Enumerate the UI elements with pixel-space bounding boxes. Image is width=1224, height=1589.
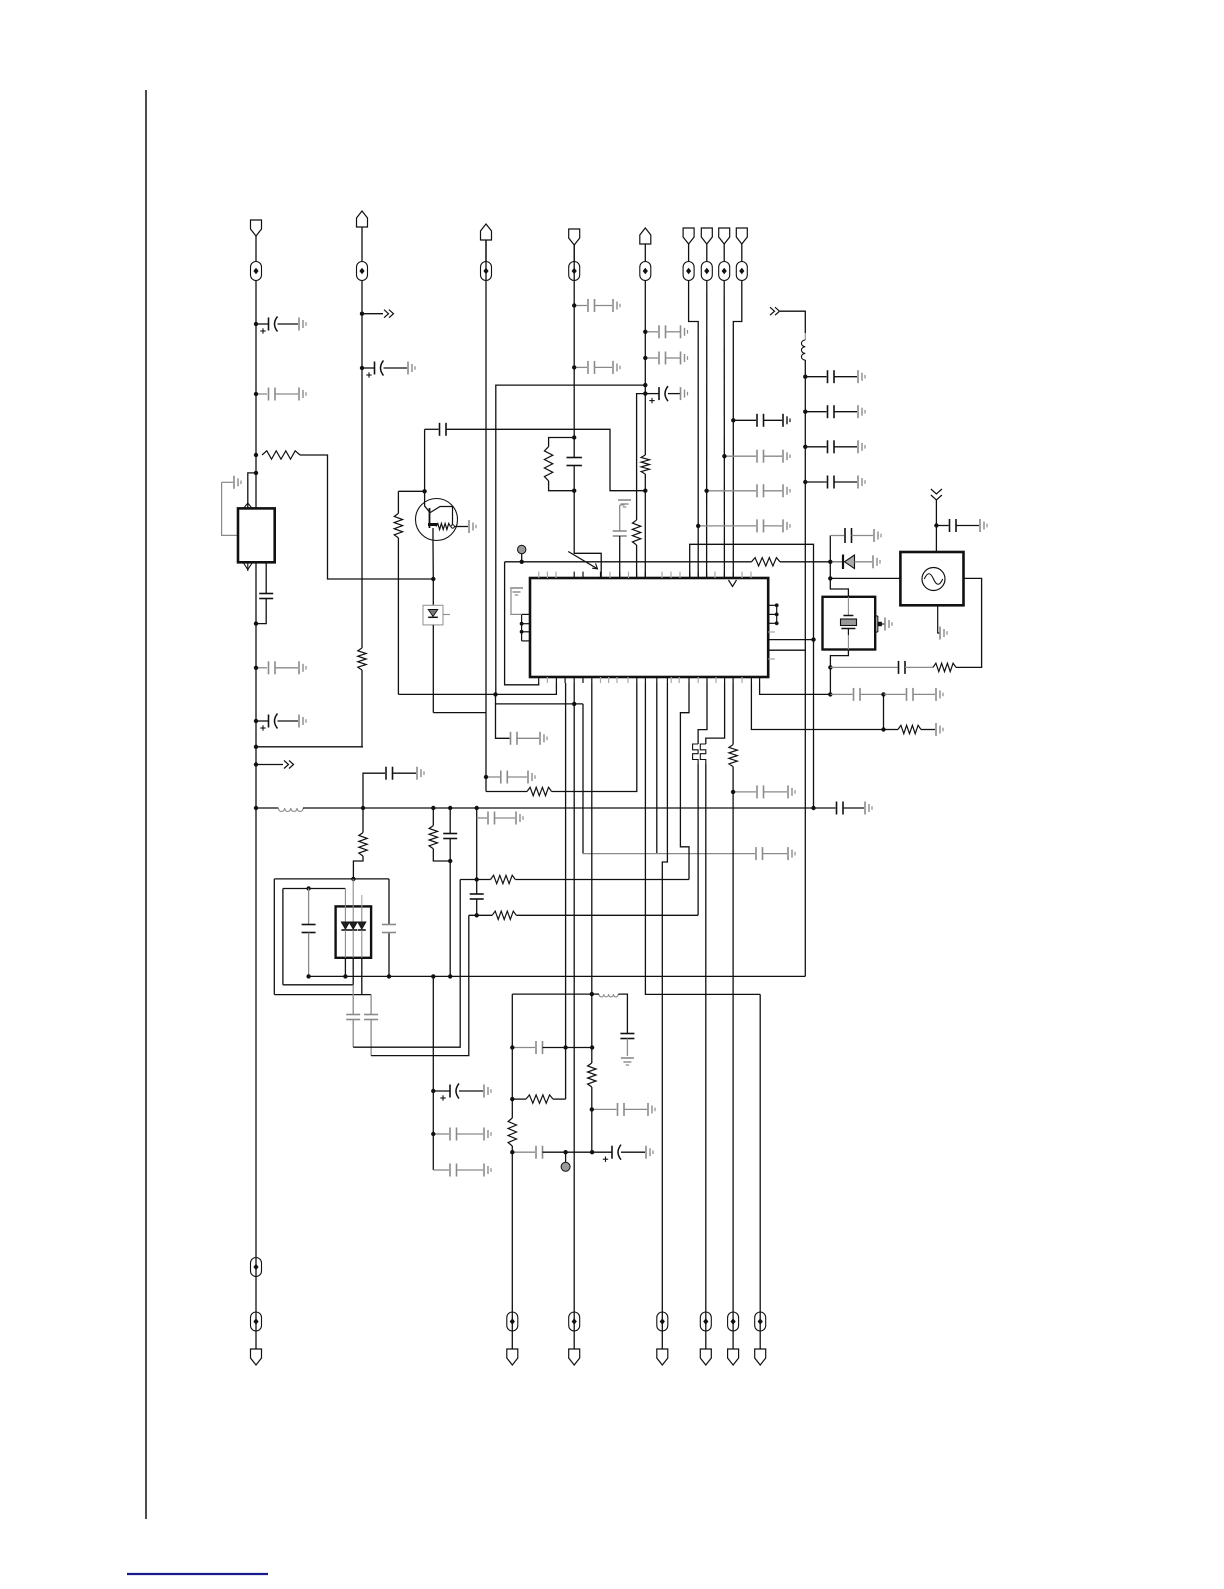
row y=1099.1 with R13 <box>512 1095 565 1103</box>
capacitor C23 (to ground) <box>511 732 548 745</box>
capacitor C37 (series) <box>620 1034 634 1039</box>
wire R4 to IC pin riser <box>552 683 637 792</box>
wire C27 to bus2 <box>449 839 451 977</box>
node dot <box>803 480 807 484</box>
arrow out (net continuation) <box>256 761 294 769</box>
antenna arrow input <box>931 489 942 552</box>
capacitor C4 (to ground) <box>256 661 306 674</box>
test point TP9 <box>736 262 747 281</box>
wire column x=760.2 <box>759 994 761 1349</box>
wire R9 bottom to nest <box>397 538 399 695</box>
oscillator X1 (boxed) <box>900 552 963 605</box>
node dot <box>696 524 700 528</box>
connector P4 (top, pointing down) <box>569 229 580 245</box>
connector P16 (bottom, pointing down) <box>755 1349 766 1365</box>
wire lead x=353.2 <box>352 879 354 985</box>
U2 pin arrow top <box>244 503 252 508</box>
node dot <box>934 523 938 527</box>
node dot <box>828 560 832 564</box>
node dot <box>803 375 807 379</box>
resistor R6 (vertical on column) <box>641 455 649 474</box>
capacitor C35 (to ground) <box>433 1128 491 1141</box>
node dot <box>254 806 258 810</box>
U1 top pin stubs <box>539 572 751 578</box>
capacitor C6 (polarized, to ground) <box>362 361 415 378</box>
inductor FL2 (horizontal) <box>278 808 303 811</box>
crystal case ground <box>875 616 892 632</box>
node dot <box>828 692 832 696</box>
node dot <box>493 692 497 696</box>
wire column x=591.8 <box>591 683 593 1152</box>
wire R9 top <box>397 491 399 513</box>
capacitor C19 (to ground) <box>805 405 865 418</box>
ground for U2 <box>222 476 241 536</box>
ground for Q1 <box>469 520 476 533</box>
capacitor C28 (to ground) <box>477 812 523 825</box>
node dot <box>643 383 647 387</box>
wire outer loop top <box>274 878 389 880</box>
test point TP6 <box>683 262 694 281</box>
wire node y=491.3 <box>398 490 424 492</box>
node dot <box>448 974 452 978</box>
diode D1 <box>832 555 872 570</box>
node dot <box>306 886 310 890</box>
wire inner loop bottom <box>283 984 353 986</box>
capacitor C39 (to ground) <box>592 1103 655 1116</box>
resistor R17 <box>898 725 921 733</box>
LED array diodes <box>341 906 365 957</box>
resistor R7 (vertical) <box>632 520 640 545</box>
wire D2 to nest <box>432 625 434 713</box>
row y=879.5 with R11 <box>460 875 689 883</box>
capacitor C34 (polarized, to ground) <box>433 1084 491 1101</box>
capacitor C25 (series) <box>440 423 447 436</box>
wire x=883.5 bridge <box>883 694 885 729</box>
capacitor C27 (on drop) <box>443 834 457 839</box>
test point TP2 <box>357 262 368 281</box>
capacitor C18 (to ground) <box>805 370 865 383</box>
test point TP15 <box>700 1312 711 1331</box>
capacitor C9 (to ground) <box>574 361 620 374</box>
wire column x=256 mid <box>255 562 257 1349</box>
capacitor C48 (to ground) <box>484 771 535 784</box>
node dot <box>828 576 832 580</box>
capacitor C10 (on column) <box>567 458 582 466</box>
capacitor C41 (polarized, to ground) <box>592 1145 653 1162</box>
wire ladder column x=805.3 <box>804 360 806 976</box>
wire row to R4 <box>486 791 527 793</box>
node dot <box>811 637 815 641</box>
wire crystal top lead <box>830 578 848 596</box>
wire lead x=361.8 <box>361 895 363 995</box>
resistor R15 (vertical) <box>588 1063 596 1087</box>
row y=1047.5 with C38 <box>512 1041 592 1054</box>
wire pin656 riser <box>656 683 658 854</box>
wire inner loop top <box>283 888 346 890</box>
capacitor C22 (to ground) <box>830 528 881 562</box>
wire R1 to corner <box>300 455 433 579</box>
wire R8 to diode <box>780 561 842 563</box>
wire from connector P5 <box>644 244 646 262</box>
wire pin 759.6 row y=694.4 <box>760 683 831 694</box>
U1 right gray stubs <box>768 632 775 659</box>
connector P12 (bottom, pointing down) <box>569 1349 580 1365</box>
wire outer loop right <box>388 879 390 977</box>
inductor FL3 (horizontal) <box>599 994 618 997</box>
connector P15 (bottom, pointing down) <box>728 1349 739 1365</box>
test point TP4 <box>569 262 580 281</box>
node dot <box>643 489 647 493</box>
wire bus2 <box>309 975 806 977</box>
node dot <box>254 453 258 457</box>
node dot <box>572 365 576 369</box>
capacitor C13 (polarized, to ground) <box>645 386 687 403</box>
wire to oscillator left pin <box>830 577 900 579</box>
wire from connector P3 <box>485 240 487 262</box>
wire FL3 leads <box>592 994 627 1033</box>
net node marker (gray) <box>518 545 526 562</box>
node dot <box>590 1150 594 1154</box>
connector P6 (top, pointing down) <box>683 228 694 244</box>
page left margin rule <box>145 90 147 1519</box>
wire column x=362 <box>361 281 363 649</box>
wire column x=741.8 w/ jog <box>733 281 742 579</box>
capacitor C8 (to ground) <box>574 299 620 312</box>
wire C3 to column <box>256 599 266 624</box>
capacitor C43 (series) <box>830 688 883 701</box>
node dot <box>431 974 435 978</box>
wire nest y=712.6 <box>433 712 486 714</box>
capacitor C33 (below, on x=371.1) <box>364 995 378 1056</box>
node dot <box>254 666 258 670</box>
node dot <box>475 877 479 881</box>
node dot <box>448 859 452 863</box>
photodiode D2 (boxed) <box>423 605 450 625</box>
wire x=830.4 segment <box>829 667 831 694</box>
wire loop pin538 y=684.8 <box>505 562 539 685</box>
node dot <box>254 322 258 326</box>
capacitor C3 (series) <box>259 594 273 599</box>
resistor R5 (vertical) <box>544 447 552 481</box>
resistor R16 (vertical) <box>729 745 737 767</box>
node dot <box>563 1150 567 1154</box>
capacitor C2 (to ground) <box>256 388 306 401</box>
wire from connector P6 <box>688 244 690 262</box>
wire column x=574.2 upper <box>574 245 601 578</box>
node dot <box>351 877 355 881</box>
capacitor C20 (to ground) <box>805 440 865 453</box>
node dot <box>254 392 258 396</box>
node dot <box>254 745 258 749</box>
wire R16 to bottom <box>732 767 734 1349</box>
wire from connector P9 <box>741 244 743 262</box>
wire C33 route up <box>371 915 469 1055</box>
node dot <box>572 702 576 706</box>
capacitor C36 (to ground) <box>433 1164 491 1177</box>
capacitor C7 (to ground) <box>386 767 424 780</box>
crystal Y1 (boxed) <box>823 597 876 650</box>
wire column x=645.3 <box>644 281 646 579</box>
capacitor C16 (to ground) <box>707 484 790 497</box>
node dot <box>510 1045 514 1049</box>
wire R3 jog to LED block <box>353 856 363 879</box>
node dot <box>803 445 807 449</box>
node dot <box>254 762 258 766</box>
wire pin 751.4 row y=729.5 <box>751 683 883 730</box>
wire from connector P2 <box>361 227 363 262</box>
row y=1152.2 with C40 <box>512 1146 592 1159</box>
extra test point TP10 <box>251 1258 262 1277</box>
node dot <box>254 621 258 625</box>
node dot <box>343 974 347 978</box>
wire branch to IC pin x=636.6 <box>637 394 646 520</box>
oscillator ground <box>938 605 947 639</box>
capacitor C44 (to ground) <box>884 688 944 701</box>
connector P8 (top, pointing down) <box>719 228 730 244</box>
wire C37 to ground <box>626 1039 628 1057</box>
capacitor C47 on IC pin stub <box>613 511 627 578</box>
wire column x=733.1 <box>732 683 734 745</box>
inductor FL1 (vertical) <box>801 333 805 360</box>
wire pin724 jog + bead FB2 <box>700 683 724 1349</box>
node dot <box>422 489 426 493</box>
transistor Q1 <box>416 491 469 540</box>
node dot <box>360 366 364 370</box>
test point TP17 <box>755 1312 766 1331</box>
node dot <box>254 471 258 475</box>
wire x=433.3 stack rail <box>432 976 434 1170</box>
test point TP7 <box>701 262 712 281</box>
test point TP12 <box>507 1312 518 1331</box>
wire bus1 to R10 <box>432 808 434 826</box>
test point TP11 <box>251 1312 262 1331</box>
wire column x=724.2 <box>723 281 725 579</box>
capacitor C5 (polarized, to ground) <box>256 714 306 731</box>
node dot <box>731 790 735 794</box>
node dot <box>590 1107 594 1111</box>
wire C32 route up <box>353 880 460 1048</box>
wire from connector P8 <box>723 244 725 262</box>
test point TP14 <box>657 1312 668 1331</box>
capacitor C30 (on outer right edge) <box>382 925 396 933</box>
node dot <box>811 806 815 810</box>
node dot <box>572 489 576 493</box>
wire bus1 left segment <box>256 807 278 809</box>
wire crystal feed <box>829 562 831 579</box>
wire bus1 main <box>303 807 814 809</box>
node dot <box>360 312 364 316</box>
test point TP5 <box>640 262 651 281</box>
crossing slash arrow <box>568 552 597 569</box>
node dot <box>881 692 885 696</box>
capacitor C24 (to ground) <box>756 847 795 860</box>
wire row y=544.3 <box>690 544 814 639</box>
wire branch to regulator U2 input <box>248 473 256 509</box>
regulator U2 <box>238 508 275 562</box>
U1 pin-1 notch <box>729 580 737 587</box>
capacitor C26 (bus1 end, to ground) <box>814 802 873 815</box>
capacitor C1 (polarized, to ground) <box>256 317 306 334</box>
wire row y=853.6 <box>583 853 755 855</box>
resistor R9 (vertical) <box>394 513 402 538</box>
LED array D3 (boxed) <box>336 906 372 957</box>
capacitor C46 (to ground) <box>936 519 987 532</box>
resistor R3 (vertical) <box>359 833 367 856</box>
wire cap row y=429.3 <box>425 428 439 430</box>
node dot <box>448 806 452 810</box>
wire nest y=703.9 <box>496 694 584 704</box>
U1 left pins + bridge <box>520 614 530 641</box>
wire R10 bottom jog <box>433 849 450 861</box>
wire pin 645.4 route <box>645 683 760 994</box>
wire C25 left lead down <box>424 429 426 491</box>
node dot <box>510 1097 514 1101</box>
node dot <box>803 410 807 414</box>
capacitor C17 (to ground) <box>698 519 790 532</box>
resistor R10 (vertical) <box>429 826 437 849</box>
resistor R14 (vertical) <box>508 1118 516 1146</box>
wire osc feedback loop <box>956 578 982 667</box>
wire row y=994.1 <box>512 994 592 1349</box>
wire Q1 emitter to diode box <box>432 579 434 605</box>
wire pin689 double-jog riser <box>680 683 689 880</box>
node dot <box>731 418 735 422</box>
wire R7 to IC pin <box>636 545 638 578</box>
node dot <box>722 454 726 458</box>
U1 left ground <box>510 588 523 614</box>
node dot <box>387 974 391 978</box>
connector P7 (top, pointing down) <box>701 228 712 244</box>
U1 bottom pin stubs <box>539 677 760 683</box>
capacitor C14 (to ground) <box>733 414 790 427</box>
node dot <box>431 1132 435 1136</box>
resistor R8 <box>752 558 781 566</box>
node dot <box>704 489 708 493</box>
node dot <box>254 719 258 723</box>
ground above C47 <box>618 500 631 511</box>
capacitor C29 (on drop) <box>470 894 484 899</box>
wire C25 to RC node <box>446 429 645 490</box>
capacitor C11 (to ground) <box>645 325 687 338</box>
wire IC right pin to ladder <box>768 649 805 651</box>
page footer blue rule <box>127 1573 268 1575</box>
connector P3 (top, pointing up) <box>481 224 492 240</box>
test point TP13 <box>569 1312 580 1331</box>
wire riser with C7 <box>363 773 385 808</box>
U1 right pins + bridge <box>768 603 778 625</box>
node dot <box>590 1045 594 1049</box>
wire pin707 jog + bead FB1 <box>693 683 707 915</box>
node dot <box>643 356 647 360</box>
node dot <box>572 435 576 439</box>
capacitor C31 (on drop x=308.6) <box>302 889 316 977</box>
capacitor C42 (to ground) <box>733 785 795 798</box>
node dot <box>361 806 365 810</box>
wire column x=706.8 <box>706 281 708 579</box>
wire from connector P1 <box>255 236 257 262</box>
arrow in (net continuation) <box>770 307 805 333</box>
arrow out (net continuation) <box>362 310 394 318</box>
wire lead x=345.4 <box>344 889 346 977</box>
connector P11 (bottom, pointing down) <box>507 1349 518 1365</box>
wire x=495.5 cap drop <box>496 704 510 738</box>
ground for D1 <box>873 555 880 568</box>
U2 pin arrow bottom <box>244 562 252 571</box>
resistor R4 <box>527 787 552 795</box>
ground for R17 <box>936 723 943 736</box>
ground below C37 <box>621 1058 634 1065</box>
node dot <box>510 1150 514 1154</box>
wire outer loop left <box>273 879 275 995</box>
test point TP8 <box>719 262 730 281</box>
wire row y=561.8 <box>505 561 752 563</box>
node dot <box>475 806 479 810</box>
node dot <box>881 727 885 731</box>
capacitor C21 (to ground) <box>805 476 865 489</box>
node dot <box>431 806 435 810</box>
node dot <box>572 303 576 307</box>
wire bus1 to C27 <box>449 808 451 834</box>
node dot <box>520 560 524 564</box>
resistor R1 <box>262 451 300 459</box>
wire column x=565.6 <box>565 683 567 1099</box>
test point TP16 <box>728 1312 739 1331</box>
test point TP1 <box>251 262 262 281</box>
connector P5 (top, pointing up) <box>640 228 651 244</box>
wire column x=574.2 (lower) <box>573 683 575 1349</box>
wire column x=662.3 <box>662 683 667 1349</box>
IC U1 <box>530 578 768 677</box>
wire nest y=694.4 <box>398 683 556 694</box>
test point TP3 <box>481 262 492 281</box>
connector P1 (top, pointing down) <box>251 220 262 236</box>
node dot <box>306 974 310 978</box>
node dot <box>431 577 435 581</box>
node dot <box>563 1045 567 1049</box>
wire from connector P7 <box>706 244 708 262</box>
wire R2 bottom <box>361 670 363 747</box>
wire R17 leads <box>884 729 936 731</box>
connector P14 (bottom, pointing down) <box>700 1349 711 1365</box>
node dot <box>828 665 832 669</box>
parallel RC: branch wires <box>549 438 575 491</box>
wire x=476.7 drop <box>476 808 478 915</box>
wire node to R2 branch <box>256 746 363 748</box>
net node marker (gray) <box>561 1152 570 1171</box>
resistor R18 <box>933 663 956 671</box>
row y=915.3 with R12 <box>469 911 698 919</box>
connector P9 (top, pointing down) <box>736 228 747 244</box>
wire bus to R3 <box>362 808 364 833</box>
resistor R2 (vertical) <box>358 648 366 670</box>
wire x=813.5 to bus1 <box>813 640 815 808</box>
connector P13 (bottom, pointing down) <box>657 1349 668 1365</box>
wire crystal bottom lead <box>830 650 848 668</box>
node dot <box>431 1089 435 1093</box>
wire long row y=385 <box>496 385 646 694</box>
node dot <box>643 330 647 334</box>
wire outer loop bottom <box>274 994 371 996</box>
wire x=583 drop to row 853.6 <box>582 704 584 854</box>
capacitor C12 (to ground) <box>645 352 687 365</box>
wire Q1 emitter <box>432 528 434 579</box>
node dot <box>643 391 647 395</box>
connector P2 (top, pointing up) <box>357 211 368 227</box>
capacitor C15 (to ground) <box>724 450 790 463</box>
wire column x=256 upper <box>255 281 257 563</box>
wire U2 output <box>265 562 267 593</box>
connector P10 (bottom, pointing down) <box>251 1349 262 1365</box>
